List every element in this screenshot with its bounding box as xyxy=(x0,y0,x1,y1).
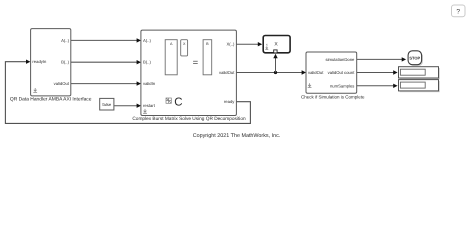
constant block false xyxy=(100,98,114,110)
Display block 2 (numSamples) xyxy=(399,80,439,91)
arrowhead into solver validIn port xyxy=(137,81,141,85)
wire false -> restart xyxy=(114,105,138,107)
wire validOut from solver to Check block xyxy=(236,72,303,74)
help button ? xyxy=(452,5,466,17)
svg-text:validOut: validOut xyxy=(308,70,324,75)
arrowhead into restart port xyxy=(137,104,141,108)
badge (link arrow) of X block xyxy=(265,46,268,49)
svg-text:B(..): B(..) xyxy=(61,60,70,65)
arrowhead into Check validOut port xyxy=(302,70,306,74)
wire numSamples -> Display2 xyxy=(357,85,395,87)
badge (link arrow) of solver xyxy=(143,109,147,113)
svg-text:Copyright 2021 The MathWorks,: Copyright 2021 The MathWorks, Inc. xyxy=(193,133,281,139)
solver icon matrix A xyxy=(165,40,177,75)
solver icon model badge (checkered square) xyxy=(166,98,171,103)
svg-text:?: ? xyxy=(456,9,460,16)
badge (link arrow) of QR Data Handler xyxy=(33,88,37,92)
arrowhead into X block input xyxy=(258,42,262,46)
subsystem Complex Burst Matrix Solve Using QR Decomposition xyxy=(141,30,237,115)
Stop Simulation block (octagon STOP) xyxy=(408,51,422,65)
svg-text:C: C xyxy=(174,97,182,109)
arrowhead into Display1 xyxy=(393,70,397,74)
svg-text:X(..): X(..) xyxy=(226,42,235,47)
junction dot on validOut wire xyxy=(274,71,277,74)
svg-text:A(..): A(..) xyxy=(143,38,152,43)
svg-text:STOP: STOP xyxy=(409,56,420,61)
Display 1 value box xyxy=(400,69,425,75)
svg-text:A(..): A(..) xyxy=(61,38,70,43)
arrowhead into readyIn port xyxy=(26,60,30,64)
wire B from QR Data Handler B(..) to solver B(..) xyxy=(71,61,139,63)
svg-text:restart: restart xyxy=(143,103,156,108)
svg-text:Check if Simulation is Complet: Check if Simulation is Complete xyxy=(301,95,365,100)
solver icon matrix X xyxy=(181,40,188,56)
svg-text:Complex Burst Matrix Solve Usi: Complex Burst Matrix Solve Using QR Deco… xyxy=(132,116,246,122)
arrowhead into Display2 xyxy=(393,84,397,88)
arrowhead into solver A port xyxy=(137,38,141,42)
svg-text:validOut: validOut xyxy=(54,81,70,86)
svg-text:validIn: validIn xyxy=(143,81,156,86)
svg-text:ready: ready xyxy=(224,99,235,104)
arrowhead into STOP port xyxy=(402,57,406,61)
Display block 1 (validOut count) xyxy=(399,67,439,78)
trigger port square on X block xyxy=(274,50,277,53)
To-Workspace block X xyxy=(263,36,290,53)
Display 2 value box xyxy=(400,82,425,88)
badge (link arrow) of Check block xyxy=(308,83,312,87)
wire validOut count -> Display1 xyxy=(357,72,395,74)
feedback wire ready -> readyIn xyxy=(5,62,250,124)
subsystem Check If Simulation Is Complete xyxy=(306,52,357,93)
wire A from QR Data Handler A(..) to solver A(..) xyxy=(71,39,139,41)
svg-text:QR Data Handler AMBA AXI Inter: QR Data Handler AMBA AXI Interface xyxy=(10,96,92,102)
subsystem QR Data Handler AMBA AXI Interface xyxy=(31,29,71,96)
Display block 1 (validOut count) shadow xyxy=(400,68,440,79)
arrowhead into solver B port xyxy=(137,60,141,64)
svg-text:=: = xyxy=(193,57,199,68)
svg-text:validOut: validOut xyxy=(219,70,235,75)
svg-text:B(..): B(..) xyxy=(143,60,152,65)
Display block 2 (numSamples) shadow xyxy=(400,81,440,92)
svg-text:validOut count: validOut count xyxy=(328,70,356,75)
trigger branch wire up into X block xyxy=(275,57,277,73)
Stop Simulation block shadow xyxy=(409,52,423,66)
svg-text:simulationDone: simulationDone xyxy=(326,57,356,62)
wire X(..) from solver to X block xyxy=(236,43,259,45)
svg-text:false: false xyxy=(102,102,112,107)
wire simulationDone -> STOP xyxy=(357,58,404,60)
arrowhead up into X trigger port xyxy=(273,54,277,58)
solver icon matrix B xyxy=(203,40,212,75)
wire validOut from QR Data Handler to solver validIn xyxy=(71,83,139,85)
svg-text:numSamples: numSamples xyxy=(330,83,354,88)
svg-text:readyIn: readyIn xyxy=(32,59,47,64)
